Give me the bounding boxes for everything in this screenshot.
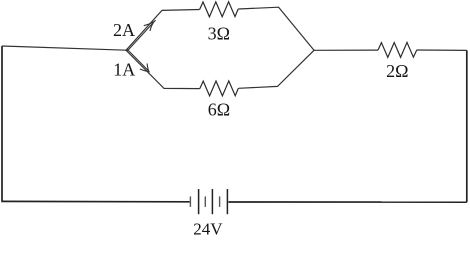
current arrow I1 shaft (2A, upper) bbox=[127, 20, 156, 51]
battery V1 plate short 1 bbox=[189, 196, 191, 207]
wire upper branch left diagonal bbox=[126, 10, 200, 51]
wire right vertical bbox=[466, 50, 468, 202]
wire from resistor R3 to right corner bbox=[417, 49, 467, 51]
node B (right junction of parallel branches) bbox=[313, 50, 315, 52]
battery V1 plate tall 1 bbox=[198, 189, 200, 214]
current arrow I2 shaft (1A, lower) bbox=[127, 49, 149, 72]
wire upper branch right diagonal bbox=[238, 7, 314, 50]
svg-text:1A: 1A bbox=[113, 60, 135, 80]
battery V1 plate tall 2 bbox=[211, 189, 213, 214]
current arrow I2 head bbox=[140, 63, 149, 71]
wire lower branch left diagonal bbox=[126, 50, 200, 88]
node A (left junction of parallel branches) bbox=[125, 49, 127, 51]
svg-text:24V: 24V bbox=[193, 220, 223, 239]
battery V1 plate short 2 bbox=[204, 196, 206, 207]
resistor R2 zigzag (6 ohm) bbox=[200, 81, 239, 96]
svg-text:6Ω: 6Ω bbox=[208, 99, 230, 119]
wire lower branch right diagonal bbox=[238, 50, 314, 88]
wire left vertical bbox=[1, 46, 3, 201]
current arrow I1 head bbox=[144, 22, 154, 31]
svg-text:3Ω: 3Ω bbox=[208, 24, 230, 44]
wire from node B to resistor R3 bbox=[314, 49, 378, 51]
battery V1 plate tall 3 bbox=[226, 189, 228, 214]
battery V1 plate short 3 bbox=[219, 196, 221, 207]
wire bottom left segment bbox=[1, 200, 189, 202]
svg-text:2Ω: 2Ω bbox=[386, 61, 408, 81]
wire top-left from corner to node A bbox=[2, 46, 126, 50]
resistor R1 zigzag (3 ohm) bbox=[200, 2, 239, 17]
svg-text:2A: 2A bbox=[113, 20, 135, 40]
wire bottom right segment bbox=[228, 201, 466, 203]
resistor R3 zigzag (2 ohm) bbox=[378, 42, 417, 57]
